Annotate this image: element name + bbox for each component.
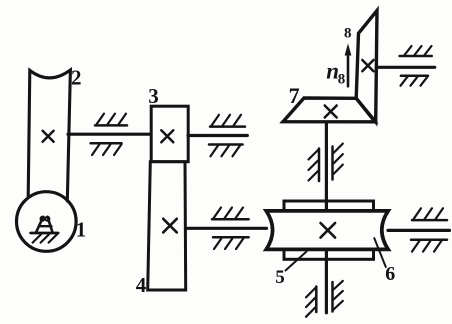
- bearing hatches above shaft IV: [405, 46, 432, 55]
- bearing hatches below shaft I: [92, 144, 122, 155]
- bearing hatches right of shaft III lower: [334, 281, 343, 310]
- shaft IV segment right of bevel 8: [378, 66, 435, 69]
- shaft II segment between gear 4 and worm 6: [186, 227, 267, 230]
- bearing rail above right end of shaft II: [412, 219, 447, 222]
- bearing hatches above right end of shaft II: [414, 208, 444, 219]
- bevel gear 8 outline: [356, 11, 377, 123]
- shaft I segment between pulley 2 and gear 3: [68, 133, 151, 136]
- motor mount left curl: [40, 217, 44, 221]
- svg-text:7: 7: [289, 83, 300, 108]
- gear 3 outline: [151, 106, 188, 162]
- svg-text:2: 2: [71, 65, 82, 89]
- motor mount left leg: [36, 217, 43, 233]
- motor mount hatch 2: [41, 234, 49, 242]
- svg-text:8: 8: [338, 71, 346, 87]
- svg-text:1: 1: [76, 218, 87, 242]
- leader line for label 6: [374, 238, 386, 267]
- speed arrow n8 shaft line: [347, 53, 350, 86]
- bearing rail left of shaft III upper: [318, 149, 321, 182]
- motor mount hatch 3: [49, 234, 57, 242]
- speed arrow n8 head: [345, 44, 352, 56]
- svg-text:8: 8: [344, 25, 352, 41]
- svg-text:6: 6: [385, 263, 395, 285]
- motor mount right curl: [45, 217, 49, 221]
- bearing hatches above shaft II: [214, 208, 244, 219]
- motor mount hatch 1: [33, 234, 41, 242]
- bearing hatches below shaft IV: [401, 77, 428, 86]
- bearing hatches above shaft I: [97, 114, 127, 125]
- shaft III upper segment (bevel 7 to worm wheel): [325, 123, 328, 212]
- bearing rail below right stub of shaft I: [209, 143, 243, 146]
- shaft III lower segment (worm wheel to foot bearing): [325, 249, 328, 312]
- bearing hatches right of shaft III upper: [334, 144, 343, 174]
- bevel gear 7 outline: [283, 98, 375, 122]
- cross mark on pulley 2: [43, 131, 54, 142]
- shaft I stub right of gear 3: [188, 134, 247, 137]
- bearing rail left of shaft III lower: [315, 287, 318, 313]
- cross mark on bevel gear 8: [362, 60, 373, 71]
- cross mark on gear 3: [161, 130, 173, 142]
- bearing rail below shaft I: [91, 142, 122, 145]
- motor mount right leg: [48, 217, 53, 233]
- bearing rail below right end of shaft II: [411, 239, 447, 242]
- cross mark on bevel gear 7: [325, 106, 337, 118]
- bearing hatches above right stub of shaft I: [212, 115, 242, 126]
- bearing hatches below right end of shaft II: [412, 241, 442, 252]
- bearing rail below shaft II: [213, 236, 249, 239]
- svg-text:3: 3: [148, 84, 159, 108]
- motor 1 circle: [17, 192, 77, 252]
- shaft II segment right of worm 6: [388, 229, 450, 232]
- gear 4 outline: [148, 162, 186, 290]
- leader line for label 5: [286, 252, 307, 271]
- svg-text:5: 5: [275, 267, 285, 288]
- worm 6 outline: [266, 211, 388, 250]
- pulley/roller 2 outline: [28, 70, 70, 201]
- bearing rail above shaft II: [212, 218, 249, 221]
- bearing hatches left of shaft III lower: [306, 288, 315, 317]
- bearing hatches left of shaft III upper: [309, 150, 319, 181]
- motor mount crossbar: [39, 225, 51, 227]
- bearing rail right of shaft III lower: [331, 282, 334, 312]
- bearing rail right of shaft III upper: [331, 147, 334, 180]
- motor mount baseline: [31, 232, 59, 235]
- cross mark on gear 4: [163, 219, 177, 233]
- bearing rail below shaft IV: [401, 74, 428, 77]
- svg-text:4: 4: [136, 273, 147, 297]
- bearing hatches below shaft II: [214, 238, 244, 249]
- worm wheel 5 outline: [284, 201, 374, 259]
- cross mark on worm 6: [321, 223, 336, 238]
- bearing rail above right stub of shaft I: [210, 125, 245, 128]
- bearing rail above shaft I: [95, 124, 127, 127]
- bearing hatches below right stub of shaft I: [211, 146, 241, 157]
- bearing rail above shaft IV: [400, 55, 432, 58]
